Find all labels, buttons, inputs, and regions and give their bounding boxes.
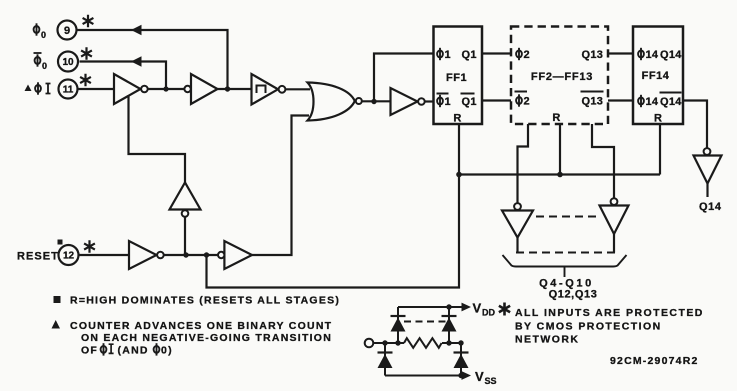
svg-text:Q1: Q1 (462, 96, 477, 108)
svg-text:R: R (453, 113, 461, 125)
svg-text:ON EACH NEGATIVE-GOING TRANSIT: ON EACH NEGATIVE-GOING TRANSITION (81, 332, 332, 344)
svg-text:Q13: Q13 (582, 49, 604, 61)
svg-text:Q14: Q14 (660, 49, 682, 61)
svg-text:R=HIGH DOMINATES (RESETS ALL S: R=HIGH DOMINATES (RESETS ALL STAGES) (70, 294, 340, 306)
svg-text:1: 1 (445, 49, 451, 61)
svg-text:COUNTER ADVANCES ONE BINARY CO: COUNTER ADVANCES ONE BINARY COUNT (70, 320, 332, 332)
svg-text:ALL INPUTS ARE PROTECTED: ALL INPUTS ARE PROTECTED (515, 307, 704, 319)
svg-text:14: 14 (646, 96, 659, 108)
svg-text:11: 11 (63, 85, 74, 96)
svg-text:RESET: RESET (17, 251, 59, 263)
svg-text:V: V (475, 369, 484, 384)
svg-text:0: 0 (42, 61, 47, 71)
svg-text:Q13: Q13 (582, 96, 604, 108)
svg-text:12: 12 (63, 251, 75, 262)
svg-text:0: 0 (41, 30, 46, 40)
svg-text:2: 2 (524, 96, 530, 108)
svg-text:Q14: Q14 (699, 201, 722, 213)
svg-text:FF14: FF14 (642, 70, 670, 82)
svg-text:2: 2 (524, 49, 530, 61)
svg-text:10: 10 (62, 57, 74, 68)
svg-text:Q14: Q14 (660, 96, 682, 108)
svg-text:NETWORK: NETWORK (515, 334, 579, 346)
svg-text:9: 9 (64, 25, 70, 37)
svg-text:R: R (552, 112, 560, 124)
svg-text:R: R (654, 113, 662, 125)
svg-text:FF1: FF1 (446, 72, 467, 84)
svg-text:V: V (473, 301, 482, 316)
svg-text:DD: DD (482, 308, 495, 318)
svg-text:1: 1 (445, 96, 451, 108)
svg-text:SS: SS (485, 376, 497, 386)
svg-text:92CM-29074R2: 92CM-29074R2 (610, 355, 699, 367)
svg-text:Q1: Q1 (462, 49, 477, 61)
svg-text:(AND: (AND (118, 344, 149, 356)
svg-text:Q12,Q13: Q12,Q13 (549, 289, 598, 301)
svg-text:14: 14 (646, 49, 659, 61)
svg-text:OF: OF (81, 344, 98, 356)
svg-text:0): 0) (161, 344, 173, 356)
svg-text:FF2—FF13: FF2—FF13 (531, 71, 593, 83)
svg-text:BY CMOS PROTECTION: BY CMOS PROTECTION (515, 321, 662, 333)
